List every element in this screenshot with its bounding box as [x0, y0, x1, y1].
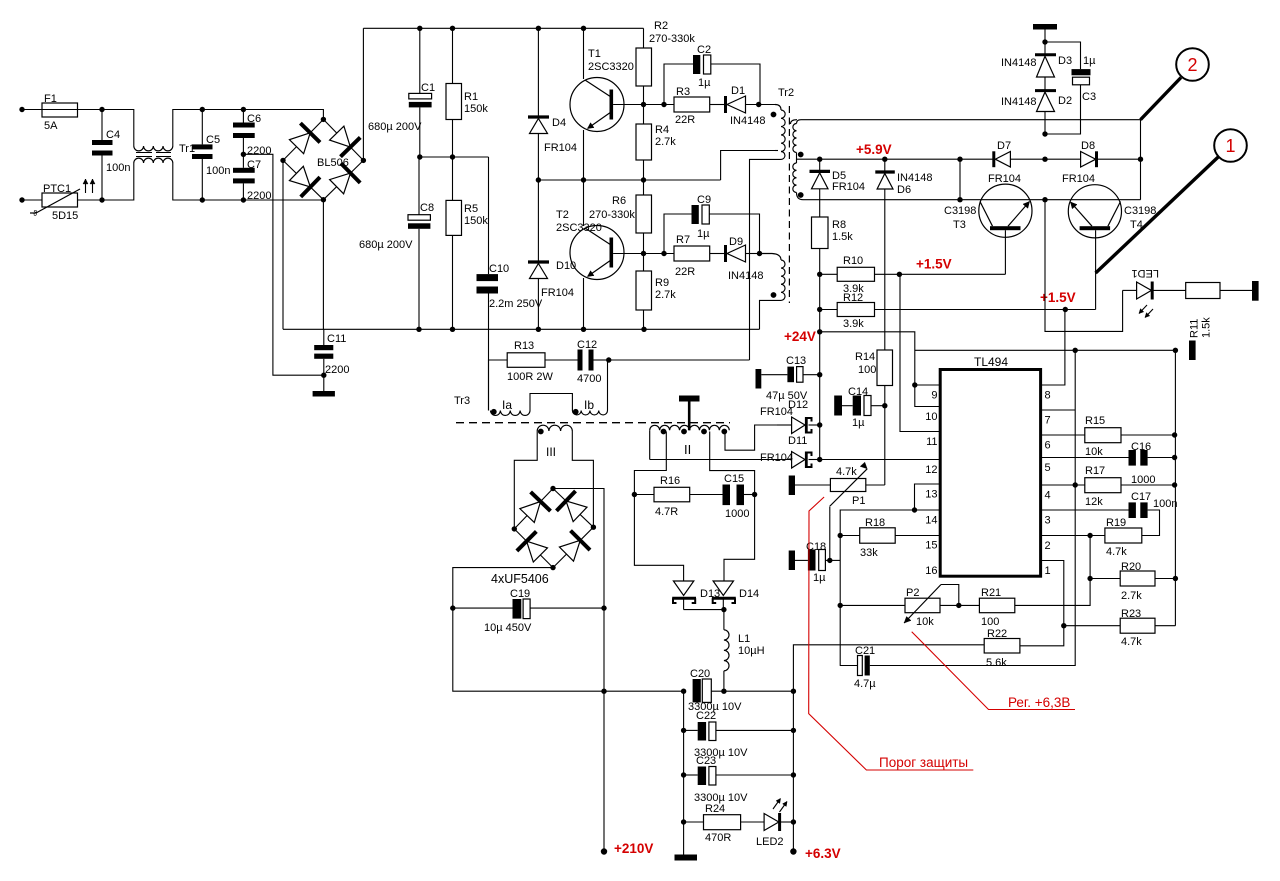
svg-text:6: 6 [1045, 440, 1051, 452]
svg-text:2200: 2200 [325, 364, 349, 376]
svg-text:8: 8 [1045, 390, 1051, 402]
svg-text:IN4148: IN4148 [728, 270, 763, 282]
svg-text:1µ: 1µ [813, 572, 826, 584]
svg-text:C1: C1 [421, 82, 435, 94]
svg-text:10k: 10k [1085, 446, 1103, 458]
svg-text:C7: C7 [247, 159, 261, 171]
svg-text:D6: D6 [897, 184, 911, 196]
svg-text:1µ: 1µ [697, 228, 710, 240]
svg-text:2SC3320: 2SC3320 [588, 61, 634, 73]
svg-text:C9: C9 [697, 194, 711, 206]
svg-text:P1: P1 [852, 495, 865, 507]
svg-text:R8: R8 [832, 219, 846, 231]
svg-text:R17: R17 [1085, 465, 1105, 477]
svg-text:R5: R5 [464, 203, 478, 215]
svg-text:D11: D11 [788, 435, 807, 447]
svg-text:C3: C3 [1082, 91, 1096, 103]
svg-text:C16: C16 [1131, 441, 1151, 453]
svg-text:C3198: C3198 [1124, 205, 1156, 217]
svg-text:D1: D1 [731, 85, 745, 97]
svg-text:R4: R4 [655, 124, 669, 136]
svg-text:P2: P2 [906, 587, 919, 599]
svg-text:C2: C2 [697, 44, 711, 56]
svg-text:270-330k: 270-330k [589, 209, 635, 221]
svg-text:C4: C4 [106, 129, 120, 141]
svg-text:4.7R: 4.7R [655, 506, 678, 518]
svg-text:D7: D7 [997, 140, 1011, 152]
svg-text:2: 2 [1187, 55, 1197, 75]
svg-text:C13: C13 [786, 355, 806, 367]
svg-text:11: 11 [926, 436, 937, 448]
svg-text:12k: 12k [1085, 496, 1103, 508]
svg-text:1µ: 1µ [1083, 55, 1096, 67]
svg-text:L1: L1 [738, 633, 750, 645]
svg-text:270-330k: 270-330k [649, 33, 695, 45]
svg-text:IN4148: IN4148 [897, 172, 932, 184]
svg-text:R12: R12 [843, 292, 863, 304]
svg-text:4.7k: 4.7k [1121, 636, 1142, 648]
svg-text:10: 10 [925, 411, 937, 423]
svg-text:F1: F1 [44, 93, 57, 105]
svg-text:5D15: 5D15 [52, 210, 78, 222]
svg-text:C20: C20 [690, 668, 710, 680]
svg-text:10µ 450V: 10µ 450V [484, 622, 532, 634]
svg-text:5: 5 [1045, 462, 1051, 474]
svg-text:IN4148: IN4148 [1001, 57, 1036, 69]
svg-text:22R: 22R [675, 114, 695, 126]
svg-text:C3198: C3198 [944, 205, 976, 217]
svg-text:T2: T2 [556, 209, 569, 221]
svg-text:IN4148: IN4148 [730, 115, 765, 127]
svg-text:FR104: FR104 [988, 173, 1021, 185]
svg-text:1.5k: 1.5k [1201, 317, 1213, 338]
svg-text:1: 1 [1225, 136, 1235, 156]
svg-text:PTC1: PTC1 [43, 183, 71, 195]
svg-text:9: 9 [931, 390, 937, 402]
svg-text:C6: C6 [247, 113, 261, 125]
svg-text:R10: R10 [843, 255, 863, 267]
svg-text:1µ: 1µ [852, 417, 865, 429]
svg-text:D9: D9 [729, 236, 743, 248]
svg-text:4.7k: 4.7k [836, 466, 857, 478]
svg-text:LED1: LED1 [1131, 267, 1159, 279]
svg-text:100: 100 [981, 616, 999, 628]
svg-text:III: III [546, 445, 556, 459]
svg-text:+24V: +24V [784, 329, 816, 344]
svg-text:+5.9V: +5.9V [856, 142, 892, 157]
svg-text:R7: R7 [676, 234, 690, 246]
svg-text:16: 16 [925, 565, 937, 577]
svg-text:FR104: FR104 [832, 181, 865, 193]
svg-text:R18: R18 [865, 517, 885, 529]
svg-text:10k: 10k [916, 616, 934, 628]
svg-text:C19: C19 [510, 588, 530, 600]
svg-text:33k: 33k [860, 547, 878, 559]
svg-text:D2: D2 [1058, 95, 1072, 107]
svg-text:10µH: 10µH [738, 645, 765, 657]
svg-text:R24: R24 [705, 803, 725, 815]
svg-text:5A: 5A [44, 120, 58, 132]
svg-text:T3: T3 [953, 219, 966, 231]
svg-text:C23: C23 [696, 755, 716, 767]
svg-text:FR104: FR104 [1062, 173, 1095, 185]
svg-text:C10: C10 [489, 263, 509, 275]
svg-text:1000: 1000 [725, 508, 749, 520]
svg-text:D13: D13 [700, 588, 720, 600]
svg-text:4.7µ: 4.7µ [854, 678, 876, 690]
svg-text:C8: C8 [420, 202, 434, 214]
svg-text:680µ 200V: 680µ 200V [368, 121, 422, 133]
svg-text:+6.3V: +6.3V [805, 846, 841, 861]
svg-text:C17: C17 [1131, 491, 1151, 503]
svg-text:+210V: +210V [614, 841, 653, 856]
svg-text:470R: 470R [705, 832, 731, 844]
svg-text:Ib: Ib [584, 398, 594, 412]
svg-text:R20: R20 [1121, 561, 1141, 573]
svg-text:R22: R22 [987, 628, 1007, 640]
svg-text:FR104: FR104 [760, 406, 793, 418]
svg-text:13: 13 [925, 489, 937, 501]
svg-text:T1: T1 [588, 48, 601, 60]
svg-text:R16: R16 [660, 475, 680, 487]
svg-text:15: 15 [925, 540, 937, 552]
svg-text:FR104: FR104 [544, 142, 577, 154]
svg-text:2SC3320: 2SC3320 [556, 222, 602, 234]
svg-text:R23: R23 [1121, 608, 1141, 620]
svg-text:D14: D14 [739, 588, 759, 600]
svg-text:100n: 100n [1153, 498, 1177, 510]
svg-text:14: 14 [925, 515, 937, 527]
svg-text:Ia: Ia [502, 398, 512, 412]
svg-text:22R: 22R [675, 266, 695, 278]
svg-text:D8: D8 [1081, 140, 1095, 152]
svg-text:Рег. +6,3В: Рег. +6,3В [1008, 695, 1070, 710]
svg-text:II: II [684, 442, 691, 457]
svg-text:R14: R14 [855, 351, 875, 363]
svg-text:R11: R11 [1189, 319, 1201, 338]
svg-text:2.2m 250V: 2.2m 250V [489, 298, 543, 310]
svg-text:100n: 100n [106, 162, 130, 174]
svg-text:Tr3: Tr3 [454, 395, 470, 407]
svg-text:R19: R19 [1106, 517, 1126, 529]
svg-text:R1: R1 [464, 91, 478, 103]
svg-text:2.7k: 2.7k [655, 289, 676, 301]
svg-text:150k: 150k [464, 103, 488, 115]
svg-text:BL506: BL506 [317, 157, 349, 169]
svg-text:R9: R9 [655, 277, 669, 289]
svg-text:680µ 200V: 680µ 200V [359, 239, 413, 251]
svg-text:ϑ: ϑ [33, 209, 38, 218]
svg-text:D3: D3 [1058, 55, 1072, 67]
svg-text:1.5k: 1.5k [832, 231, 853, 243]
svg-text:R15: R15 [1085, 415, 1105, 427]
svg-text:1µ: 1µ [698, 77, 711, 89]
svg-text:R21: R21 [981, 587, 1001, 599]
svg-text:C14: C14 [848, 386, 868, 398]
svg-text:C5: C5 [206, 134, 220, 146]
svg-text:Порог защиты: Порог защиты [879, 755, 968, 770]
svg-text:2.7k: 2.7k [655, 136, 676, 148]
svg-text:LED2: LED2 [756, 836, 784, 848]
svg-text:4xUF5406: 4xUF5406 [491, 572, 549, 586]
svg-text:R13: R13 [514, 340, 534, 352]
svg-text:2.7k: 2.7k [1121, 590, 1142, 602]
svg-text:R6: R6 [612, 195, 626, 207]
svg-text:3.9k: 3.9k [843, 318, 864, 330]
svg-text:150k: 150k [464, 215, 488, 227]
svg-text:100n: 100n [206, 165, 230, 177]
svg-text:Tr2: Tr2 [778, 87, 794, 99]
svg-text:4700: 4700 [577, 373, 601, 385]
svg-text:FR104: FR104 [760, 452, 793, 464]
svg-text:+1.5V: +1.5V [916, 257, 952, 272]
svg-text:FR104: FR104 [541, 287, 574, 299]
svg-text:C15: C15 [724, 473, 744, 485]
svg-text:4.7k: 4.7k [1106, 546, 1127, 558]
svg-text:100R 2W: 100R 2W [507, 371, 553, 383]
svg-text:100: 100 [858, 364, 876, 376]
svg-text:C11: C11 [327, 333, 346, 345]
svg-text:5.6k: 5.6k [986, 657, 1007, 669]
svg-text:1: 1 [1045, 565, 1051, 577]
svg-text:7: 7 [1045, 415, 1051, 427]
svg-text:1000: 1000 [1131, 474, 1155, 486]
svg-text:TL494: TL494 [974, 355, 1008, 369]
svg-text:2: 2 [1045, 540, 1051, 552]
svg-text:R2: R2 [654, 20, 668, 32]
svg-text:12: 12 [925, 464, 937, 476]
svg-text:4: 4 [1045, 490, 1051, 502]
svg-text:D4: D4 [552, 117, 566, 129]
svg-text:C21: C21 [855, 645, 875, 657]
svg-text:IN4148: IN4148 [1001, 96, 1036, 108]
svg-text:C12: C12 [577, 339, 597, 351]
svg-text:2200: 2200 [247, 145, 271, 157]
svg-text:R3: R3 [676, 86, 690, 98]
svg-text:C22: C22 [696, 710, 716, 722]
svg-text:3: 3 [1045, 515, 1051, 527]
